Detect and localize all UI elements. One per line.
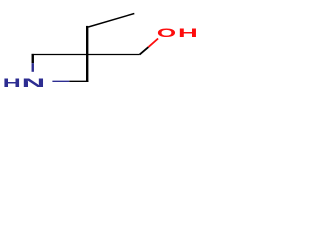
- svg-text:H: H: [178, 26, 198, 40]
- svg-text:H: H: [3, 76, 21, 90]
- svg-text:O: O: [157, 26, 177, 40]
- svg-text:N: N: [22, 76, 46, 90]
